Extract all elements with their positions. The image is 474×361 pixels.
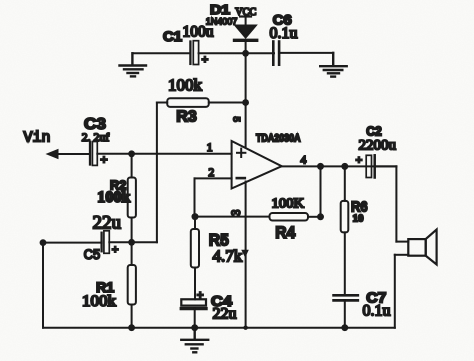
- svg-text:100K: 100K: [272, 196, 305, 211]
- svg-text:22u: 22u: [213, 306, 237, 323]
- input arrow: [46, 149, 59, 160]
- wire C5 left to corner: [43, 242, 102, 244]
- svg-text:C2: C2: [366, 123, 382, 138]
- wire op-amp pin 2: [195, 178, 232, 216]
- svg-text:100k: 100k: [82, 293, 116, 310]
- capacitor C6: [273, 42, 279, 65]
- svg-text:VCC: VCC: [235, 6, 256, 18]
- wire R1 top lead: [131, 242, 133, 265]
- node C7/rail junction: [341, 324, 348, 331]
- wire R3 right lead: [209, 102, 246, 104]
- capacitor C7: [334, 295, 358, 300]
- svg-text:C5: C5: [84, 247, 100, 262]
- svg-text:TDA2030A: TDA2030A: [256, 133, 301, 145]
- wire op-amp pin 3 down to ground rail: [245, 182, 247, 328]
- wire left vertical to ground rail: [42, 243, 44, 328]
- svg-text:R4: R4: [275, 223, 295, 242]
- node C4/rail junction: [191, 324, 198, 331]
- svg-text:100u: 100u: [183, 23, 214, 40]
- capacitor C3: [90, 142, 97, 166]
- wire arrow to C3: [56, 153, 90, 155]
- svg-text:0.1u: 0.1u: [363, 303, 391, 320]
- capacitor C5: [102, 231, 110, 254]
- svg-text:+: +: [112, 242, 119, 256]
- node output/feedback junction: [317, 163, 324, 170]
- wire op-amp output pin 4: [282, 165, 397, 167]
- wire R2 top lead: [131, 154, 133, 178]
- capacitor C1: [190, 41, 198, 65]
- svg-text:R3: R3: [176, 108, 197, 125]
- ground (right of C6): [320, 53, 347, 77]
- wire ground rail: [43, 327, 395, 329]
- wire R3-left vertical down to divider node: [132, 103, 157, 243]
- speaker LS1: [395, 230, 437, 328]
- svg-text:2: 2: [209, 167, 215, 179]
- wire VCC node to C6: [246, 52, 274, 54]
- svg-text:D1: D1: [210, 2, 231, 17]
- wire R4 right lead: [308, 216, 321, 218]
- wire feedback vertical to output: [320, 166, 322, 216]
- svg-text:Vin: Vin: [24, 130, 51, 147]
- svg-text:4.7k: 4.7k: [213, 246, 243, 265]
- ground (left of C1): [120, 53, 147, 76]
- ground (below C4): [181, 328, 208, 353]
- wire C7 bottom lead: [344, 300, 346, 327]
- wire C1 to VCC node: [199, 52, 246, 54]
- svg-text:0.1u: 0.1u: [270, 25, 298, 42]
- node VCC junction: [242, 50, 249, 57]
- resistor R3: [167, 98, 209, 107]
- wire R3 left lead: [157, 102, 167, 104]
- svg-text:10: 10: [353, 212, 365, 224]
- resistor R4: [270, 213, 309, 221]
- pin3 arrow mark: [241, 250, 249, 258]
- wire C2 right to corner and down to speaker: [375, 166, 409, 241]
- resistor R6: [341, 201, 349, 233]
- wire C3 to op-amp pin 1: [97, 153, 231, 155]
- wire C4 bottom lead: [194, 309, 196, 328]
- wire R6 bottom lead: [344, 232, 346, 294]
- wire R5 top lead: [194, 217, 196, 229]
- svg-text:+: +: [356, 153, 363, 167]
- VCC terminal: [240, 17, 251, 26]
- wire R1 bottom lead: [131, 305, 133, 328]
- svg-text:4: 4: [301, 155, 307, 167]
- node divider junction: [128, 239, 135, 246]
- op-amp U1 TDA2030A: [232, 141, 282, 189]
- wire C6 to right ground: [279, 52, 333, 54]
- svg-text:100k: 100k: [168, 76, 203, 95]
- svg-text:100k: 100k: [97, 189, 130, 206]
- capacitor C4: [181, 299, 206, 308]
- node R3 right junction: [242, 99, 249, 106]
- wire node to R4: [195, 216, 270, 218]
- node C5 left corner: [40, 239, 47, 246]
- node pin2/R5/R4 junction: [192, 213, 199, 220]
- node output/R6 junction: [341, 163, 348, 170]
- wire R5 bottom lead: [194, 268, 196, 300]
- svg-text:C1: C1: [163, 28, 182, 44]
- svg-text:1: 1: [207, 142, 213, 154]
- diode D1: [235, 26, 257, 54]
- node R4 right junction: [317, 213, 324, 220]
- node R2 top junction: [128, 150, 135, 157]
- wire top-left rail to C1: [132, 52, 190, 54]
- resistor R5: [191, 229, 199, 268]
- wire R6 top lead: [344, 166, 346, 201]
- capacitor C2: [366, 155, 375, 177]
- svg-text:5: 5: [231, 117, 242, 122]
- resistor R2: [128, 178, 136, 218]
- node R1/rail junction: [128, 324, 135, 331]
- wire VCC vertical to op-amp pin 5: [245, 53, 247, 147]
- node pin3/rail junction: [243, 326, 247, 330]
- resistor R1: [128, 265, 136, 305]
- wire R2 bottom lead: [131, 218, 133, 243]
- wire C5 right to divider node: [109, 241, 131, 243]
- svg-text:3: 3: [231, 210, 243, 216]
- svg-text:2200u: 2200u: [359, 138, 397, 154]
